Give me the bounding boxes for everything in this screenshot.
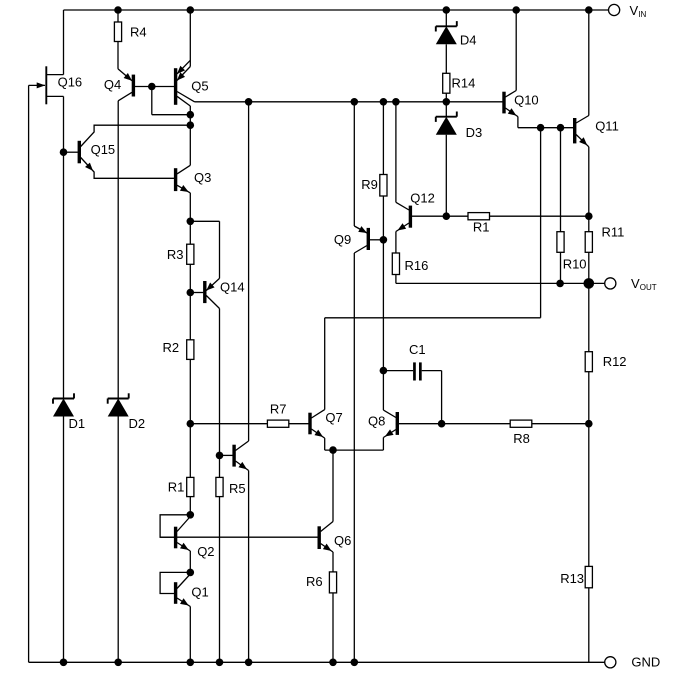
- svg-text:D4: D4: [460, 32, 477, 47]
- svg-text:V: V: [630, 3, 639, 18]
- svg-text:R13: R13: [560, 571, 584, 586]
- svg-text:R4: R4: [130, 25, 147, 40]
- svg-text:Q6: Q6: [334, 533, 351, 548]
- svg-text:Q15: Q15: [91, 142, 116, 157]
- svg-text:GND: GND: [631, 654, 660, 669]
- svg-text:V: V: [631, 276, 640, 291]
- svg-text:R12: R12: [603, 354, 627, 369]
- svg-text:Q11: Q11: [595, 119, 619, 134]
- svg-text:R8: R8: [513, 431, 530, 446]
- svg-text:Q12: Q12: [410, 190, 435, 205]
- svg-text:Q3: Q3: [194, 170, 211, 185]
- svg-text:R16: R16: [405, 258, 429, 273]
- svg-text:C1: C1: [409, 342, 426, 357]
- svg-text:Q14: Q14: [220, 279, 245, 294]
- svg-text:Q2: Q2: [197, 544, 214, 559]
- svg-text:Q7: Q7: [325, 410, 342, 425]
- svg-text:Q16: Q16: [58, 75, 83, 90]
- svg-text:Q10: Q10: [514, 93, 539, 108]
- svg-text:R9: R9: [361, 177, 378, 192]
- svg-text:Q1: Q1: [191, 585, 208, 600]
- svg-text:IN: IN: [638, 10, 646, 19]
- svg-text:R2: R2: [163, 340, 180, 355]
- svg-text:R5: R5: [229, 481, 246, 496]
- svg-text:Q9: Q9: [334, 232, 351, 247]
- svg-text:R1: R1: [473, 220, 490, 235]
- svg-text:Q5: Q5: [191, 78, 208, 93]
- svg-text:Q4: Q4: [104, 77, 121, 92]
- svg-text:OUT: OUT: [640, 283, 657, 292]
- svg-text:Q8: Q8: [368, 413, 385, 428]
- svg-text:D3: D3: [466, 125, 483, 140]
- svg-text:R3: R3: [167, 247, 184, 262]
- svg-text:R10: R10: [563, 257, 587, 272]
- svg-text:R14: R14: [452, 76, 476, 91]
- svg-text:D1: D1: [69, 416, 86, 431]
- svg-text:R7: R7: [270, 401, 287, 416]
- svg-text:R6: R6: [306, 574, 323, 589]
- svg-text:R1: R1: [168, 480, 185, 495]
- svg-text:D2: D2: [129, 416, 146, 431]
- svg-text:R11: R11: [602, 225, 625, 240]
